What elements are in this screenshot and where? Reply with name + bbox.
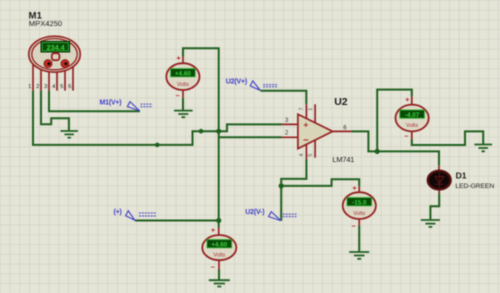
svg-text:Volts: Volts <box>177 82 189 88</box>
svg-text:Volts: Volts <box>213 253 225 259</box>
svg-text:+: + <box>405 97 409 104</box>
svg-text:5: 5 <box>308 154 314 157</box>
svg-text:D1: D1 <box>456 171 467 181</box>
svg-text:U2(V-): U2(V-) <box>245 209 264 216</box>
svg-text:5: 5 <box>60 84 63 90</box>
svg-text:(+): (+) <box>114 209 122 216</box>
svg-text:Volts: Volts <box>406 123 418 129</box>
svg-text:−: − <box>404 134 408 141</box>
svg-text:−: − <box>211 265 215 272</box>
svg-text:+: + <box>352 186 356 193</box>
svg-text:2: 2 <box>36 84 39 90</box>
svg-text:U2: U2 <box>334 96 348 108</box>
svg-text:LED-GREEN: LED-GREEN <box>455 183 494 190</box>
svg-text:−: − <box>351 224 355 231</box>
svg-text:+4.60: +4.60 <box>175 71 191 78</box>
svg-text:+4.60: +4.60 <box>211 242 227 249</box>
svg-text:7: 7 <box>299 108 305 111</box>
svg-text:+: + <box>211 227 215 234</box>
svg-text:LM741: LM741 <box>332 155 354 164</box>
svg-text:U2(V+): U2(V+) <box>226 78 247 85</box>
svg-text:+: + <box>303 119 308 129</box>
svg-text:MPX4250: MPX4250 <box>29 19 62 28</box>
svg-text:1: 1 <box>28 84 31 90</box>
svg-text:-4.07: -4.07 <box>405 112 420 119</box>
svg-text:-15.0: -15.0 <box>352 200 367 207</box>
svg-text:4: 4 <box>299 154 305 157</box>
svg-text:Volts: Volts <box>353 211 365 217</box>
svg-text:−: − <box>176 93 180 100</box>
svg-text:3: 3 <box>44 84 47 90</box>
svg-text:+: + <box>177 56 181 63</box>
svg-text:M1(V+): M1(V+) <box>100 100 122 107</box>
svg-text:234.4: 234.4 <box>47 43 65 52</box>
svg-text:1: 1 <box>308 108 314 111</box>
svg-text:−: − <box>303 135 309 146</box>
svg-text:6: 6 <box>68 84 71 90</box>
